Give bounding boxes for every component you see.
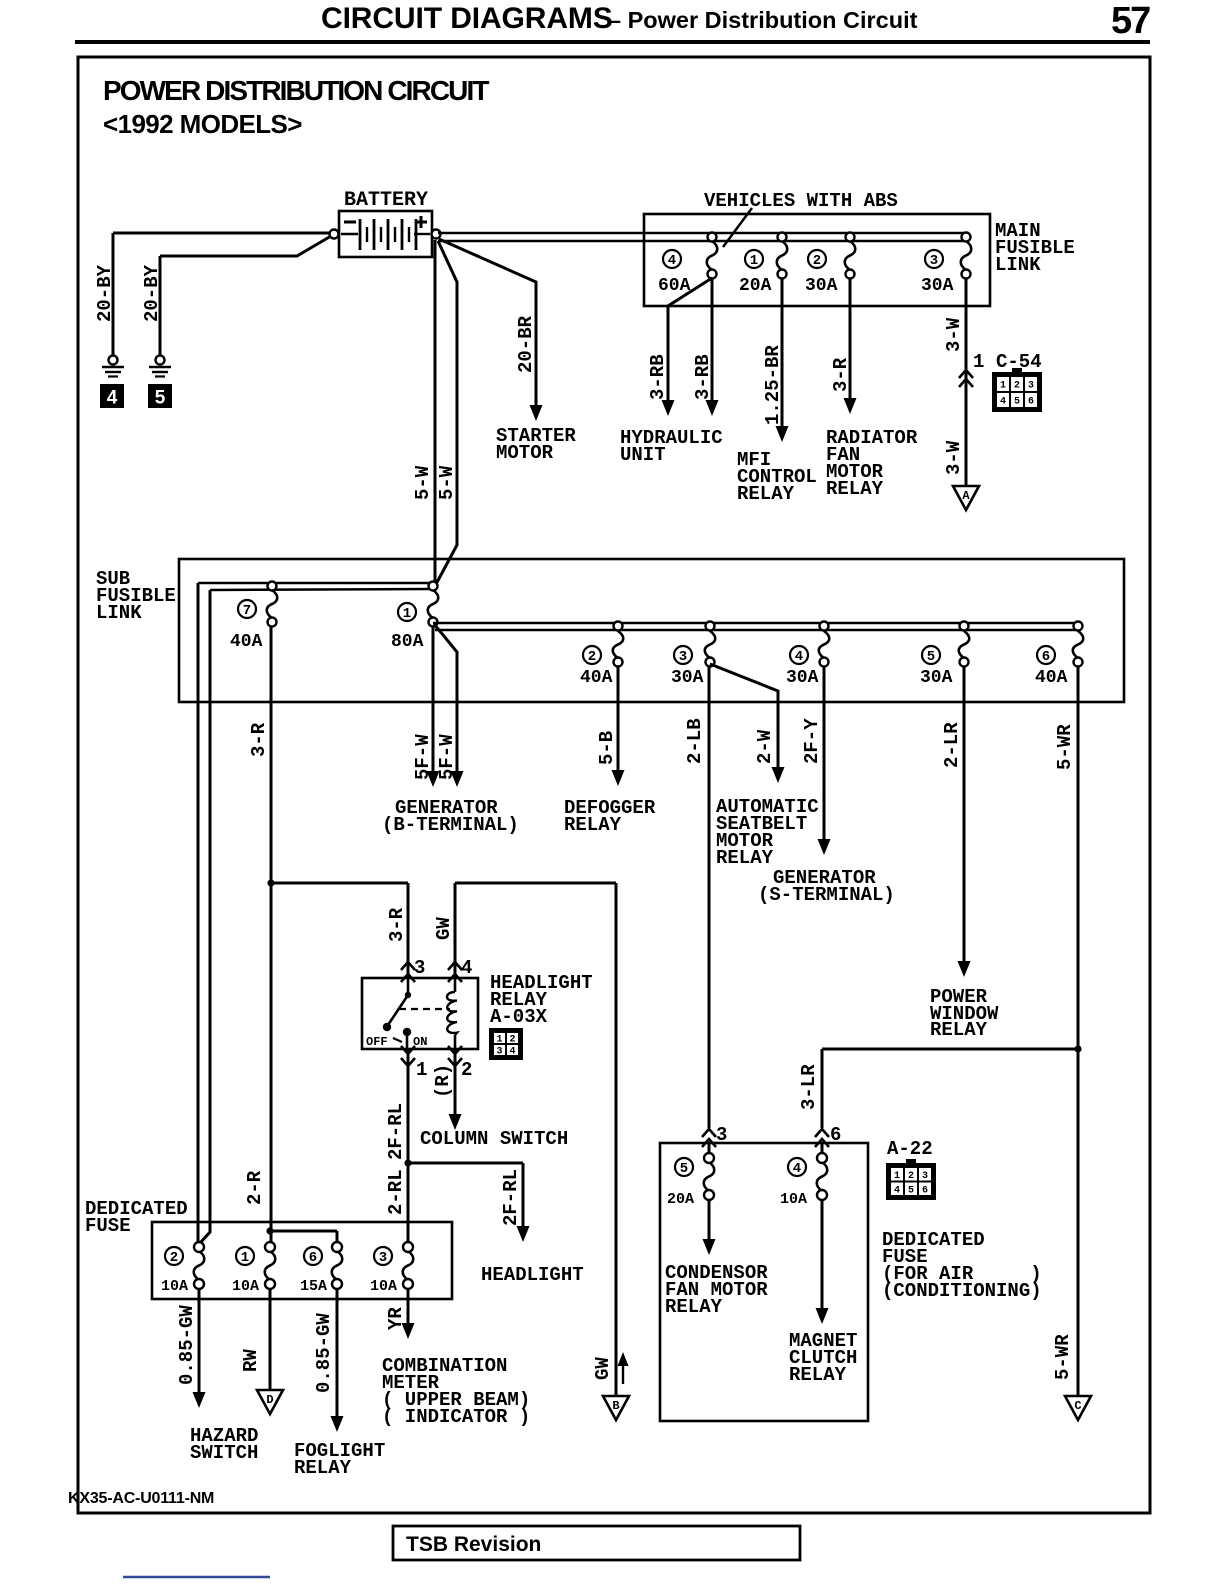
svg-text:(B-TERMINAL): (B-TERMINAL) — [382, 814, 519, 836]
main fusible link element 1 — [777, 241, 788, 270]
A/C dedicated fuse box — [660, 1143, 868, 1421]
arrow to radiator fan motor relay — [844, 398, 857, 414]
svg-text:30A: 30A — [671, 668, 704, 688]
sub link number 1 — [398, 603, 416, 622]
arrow to foglight relay — [331, 1416, 344, 1432]
svg-text:5: 5 — [908, 1185, 914, 1196]
svg-text:5: 5 — [680, 1161, 688, 1177]
svg-text:3-RB: 3-RB — [692, 354, 714, 400]
wire main bus upper — [438, 232, 966, 235]
arrow to MFI control relay — [776, 426, 789, 442]
wire down to ground 5 — [159, 256, 162, 356]
wire feed left outer (to dedicated fuse 2) — [197, 583, 200, 1243]
svg-text:4: 4 — [795, 649, 803, 665]
sub link number 2 — [583, 646, 601, 665]
svg-text:2F-RL: 2F-RL — [385, 1103, 407, 1160]
wire RW to reference D — [269, 1289, 272, 1390]
wire pin6 to fuse 4 — [821, 1143, 824, 1154]
junction at 3-R branch — [267, 879, 274, 886]
svg-text:CIRCUIT DIAGRAMS: CIRCUIT DIAGRAMS — [321, 2, 613, 35]
relay pin 2 chevrons — [448, 1046, 462, 1054]
wire 2-W branch to seatbelt relay — [710, 664, 778, 768]
svg-text:5-B: 5-B — [596, 731, 618, 765]
wire 3-R / 2-R from link 7 down to dedicated fuse 1 — [270, 626, 273, 1243]
svg-text:3-R: 3-R — [248, 722, 270, 757]
A/C dedicated fuse number 4 — [788, 1158, 806, 1177]
wire 2F-Y to generator S — [823, 666, 826, 840]
sub fusible link element 1 — [428, 590, 439, 618]
svg-text:A-03X: A-03X — [490, 1006, 548, 1028]
A/C fuse box pin 6 chevrons — [815, 1129, 829, 1137]
wire 3-R into relay pin 3 — [407, 883, 410, 978]
svg-text:2-LB: 2-LB — [684, 718, 706, 764]
A/C fuse box pin 3 chevrons — [702, 1129, 716, 1137]
svg-text:6: 6 — [309, 1250, 317, 1266]
header rule — [75, 40, 1150, 44]
wire 0.85-GW to foglight relay — [336, 1289, 339, 1417]
wire 5-WR from link 6 to reference C — [1077, 666, 1080, 1396]
off-page reference B — [603, 1396, 629, 1420]
svg-text:VEHICLES WITH ABS: VEHICLES WITH ABS — [704, 190, 898, 212]
svg-text:5-W: 5-W — [412, 465, 434, 500]
svg-text:A: A — [962, 489, 970, 503]
svg-text:6: 6 — [1042, 649, 1050, 665]
main link number 4 — [663, 250, 681, 269]
svg-text:1: 1 — [750, 253, 758, 269]
svg-text:2F-Y: 2F-Y — [801, 718, 823, 764]
svg-text:1: 1 — [973, 351, 984, 373]
svg-text:57: 57 — [1111, 0, 1150, 42]
svg-text:7: 7 — [243, 603, 251, 619]
sub link number 3 — [674, 646, 692, 665]
sub fusible link element 2 — [613, 631, 624, 658]
svg-text:5: 5 — [155, 388, 166, 409]
wire 5F-W right to generator B — [434, 624, 457, 772]
arrow to generator B-terminal right — [451, 771, 464, 787]
svg-text:4: 4 — [1000, 397, 1006, 408]
sub fusible link box — [179, 559, 1124, 702]
wire pin3 to fuse 5 — [708, 1143, 711, 1154]
svg-text:2: 2 — [170, 1250, 178, 1266]
main link number 2 — [808, 250, 826, 269]
svg-text:1: 1 — [416, 1059, 427, 1081]
sub link number 5 — [922, 646, 940, 665]
junction 5-WR / 3-LR — [1074, 1045, 1081, 1052]
wire down to dedicated fuse 6 — [336, 1231, 339, 1242]
svg-text:30A: 30A — [786, 668, 819, 688]
svg-text:6: 6 — [922, 1185, 928, 1196]
sub link number 6 — [1037, 646, 1055, 665]
ground ref 4 — [100, 384, 124, 409]
svg-text:10A: 10A — [161, 1278, 188, 1295]
svg-text:1: 1 — [496, 1035, 502, 1046]
wire down to ground 4 — [112, 233, 115, 356]
svg-text:GW: GW — [592, 1357, 614, 1380]
off-page reference D — [257, 1390, 283, 1414]
svg-text:3: 3 — [414, 957, 425, 979]
wire 5F-W left to generator B — [432, 626, 435, 772]
svg-text:3-R: 3-R — [830, 357, 852, 392]
svg-text:5-W: 5-W — [436, 465, 458, 500]
svg-text:40A: 40A — [1035, 668, 1068, 688]
svg-text:5-WR: 5-WR — [1052, 1334, 1074, 1380]
arrow to hazard switch — [193, 1392, 206, 1408]
svg-text:2F-RL: 2F-RL — [500, 1169, 522, 1226]
svg-text:3: 3 — [1028, 381, 1034, 392]
wire 3-R to radiator fan motor relay — [849, 278, 852, 398]
svg-text:30A: 30A — [805, 276, 838, 296]
svg-text:RELAY: RELAY — [930, 1019, 988, 1041]
dedicated fuse number 3 — [374, 1247, 392, 1266]
arrow to automatic seatbelt motor relay — [772, 767, 785, 783]
relay coil — [454, 978, 457, 992]
svg-text:10A: 10A — [780, 1191, 807, 1208]
svg-text:20A: 20A — [739, 276, 772, 296]
svg-text:40A: 40A — [580, 668, 613, 688]
svg-text:(S-TERMINAL): (S-TERMINAL) — [758, 884, 895, 906]
svg-text:3-R: 3-R — [386, 907, 408, 942]
dedicated fuse number 6 — [304, 1247, 322, 1266]
svg-text:5F-W: 5F-W — [412, 734, 434, 780]
wire GW horizontal — [455, 882, 616, 885]
wire branch 3-R to headlight relay — [271, 882, 408, 885]
svg-text:3-LR: 3-LR — [798, 1064, 820, 1110]
svg-text:5: 5 — [1014, 397, 1020, 408]
wire branch to headlight — [408, 1162, 523, 1165]
headlight relay A-03X box — [362, 978, 478, 1049]
direction arrow on GW wire — [622, 1360, 624, 1384]
svg-text:4: 4 — [894, 1185, 900, 1196]
svg-text:30A: 30A — [920, 668, 953, 688]
wire 2-RL to dedicated fuse 3 — [407, 1163, 410, 1243]
svg-text:30A: 30A — [921, 276, 954, 296]
svg-text:– Power Distribution Circuit: – Power Distribution Circuit — [608, 7, 918, 33]
wire battery- to ground 5 — [160, 236, 331, 256]
arrow to magnet clutch relay — [816, 1308, 829, 1324]
svg-text:20A: 20A — [667, 1191, 694, 1208]
svg-text:TSB Revision: TSB Revision — [406, 1533, 541, 1556]
arrow to generator B-terminal left — [427, 771, 440, 787]
sub fusible link element 3 — [705, 631, 716, 658]
svg-text:YR: YR — [385, 1307, 407, 1330]
arrow to starter motor — [530, 405, 543, 421]
connector A-03X pin grid — [489, 1028, 523, 1060]
svg-text:40A: 40A — [230, 632, 263, 652]
svg-text:1: 1 — [894, 1171, 900, 1182]
main fusible link element 4 — [707, 241, 718, 270]
svg-text:SWITCH: SWITCH — [190, 1442, 258, 1464]
svg-text:3: 3 — [922, 1171, 928, 1182]
svg-text:( INDICATOR ): ( INDICATOR ) — [382, 1406, 530, 1428]
svg-text:3: 3 — [930, 253, 938, 269]
svg-text:D: D — [266, 1393, 273, 1407]
arrow to combination meter — [402, 1323, 415, 1339]
svg-text:2: 2 — [461, 1059, 472, 1081]
svg-text:20-BY: 20-BY — [141, 264, 163, 322]
svg-text:2-R: 2-R — [244, 1170, 266, 1205]
battery negative terminal node — [330, 230, 339, 239]
battery B1 — [339, 211, 432, 257]
svg-text:4: 4 — [107, 388, 118, 409]
connector A-22 pin grid — [886, 1159, 936, 1200]
sub fusible link element 5 — [959, 631, 970, 658]
svg-text:RELAY: RELAY — [665, 1296, 723, 1318]
wire battery- to ground 4 — [113, 232, 330, 235]
arrowhead up on GW wire — [618, 1352, 629, 1366]
TSB Revision box — [393, 1526, 800, 1560]
svg-text:(R): (R) — [432, 1064, 454, 1098]
relay switch contact — [383, 978, 411, 1049]
svg-text:5: 5 — [927, 649, 935, 665]
ground G4 — [102, 356, 124, 377]
wire 3-LR down to A/C fuse box pin 6 — [821, 1049, 824, 1128]
battery positive terminal node — [432, 230, 441, 239]
svg-text:KX35-AC-U0111-NM: KX35-AC-U0111-NM — [68, 1490, 214, 1507]
svg-text:20-BR: 20-BR — [515, 315, 537, 373]
svg-text:3-RB: 3-RB — [647, 354, 669, 400]
main link number 1 — [745, 250, 763, 269]
svg-text:POWER DISTRIBUTION CIRCUIT: POWER DISTRIBUTION CIRCUIT — [103, 75, 489, 106]
sub link number 4 — [790, 646, 808, 665]
arrow to headlight — [517, 1226, 530, 1242]
svg-text:1: 1 — [1000, 381, 1006, 392]
sub fusible link element 6 — [1073, 631, 1084, 658]
svg-text:1.25-BR: 1.25-BR — [762, 345, 784, 425]
svg-text:1: 1 — [241, 1250, 249, 1266]
wire sub bus row1 lower — [210, 589, 430, 590]
wire 5-W right — [435, 241, 457, 586]
main fusible link element 2 — [845, 241, 856, 270]
connector pass-through chevrons C-54 — [959, 370, 973, 378]
svg-text:4: 4 — [793, 1161, 801, 1177]
svg-text:BATTERY: BATTERY — [344, 189, 428, 212]
svg-text:LINK: LINK — [995, 254, 1041, 276]
svg-text:1: 1 — [403, 606, 411, 622]
dedicated fuse element 2 — [194, 1251, 205, 1280]
sub fusible link element 7 — [267, 590, 278, 618]
svg-text:4: 4 — [668, 253, 676, 269]
svg-text:OFF: OFF — [366, 1035, 388, 1049]
svg-text:2: 2 — [509, 1035, 515, 1046]
dedicated fuse element 6 — [332, 1251, 343, 1280]
dedicated fuse number 2 — [165, 1247, 183, 1266]
svg-text:RELAY: RELAY — [294, 1457, 352, 1479]
wire sub bus row1 upper — [198, 582, 433, 585]
svg-text:FUSE: FUSE — [85, 1215, 131, 1237]
wire 3-RB (from link 4, left) — [668, 278, 712, 400]
relay pin 1 chevrons — [401, 1046, 415, 1054]
svg-text:3: 3 — [679, 649, 687, 665]
junction 2F-RL / 2-RL — [404, 1159, 411, 1166]
svg-text:2: 2 — [908, 1171, 914, 1182]
wire 5-W left — [434, 240, 437, 584]
svg-text:RELAY: RELAY — [716, 847, 774, 869]
arrow to power window relay — [958, 961, 971, 977]
svg-text:2: 2 — [1014, 381, 1020, 392]
wire branch to A/C fuse 4 — [822, 1048, 1078, 1051]
svg-text:UNIT: UNIT — [620, 444, 666, 466]
wire 2-LB from link 3 to A/C fuse 5 — [708, 666, 711, 1128]
wire YR to combination meter — [407, 1289, 410, 1324]
svg-text:RELAY: RELAY — [564, 814, 622, 836]
wire 2F-RL from relay pin 1 — [407, 1049, 410, 1163]
wire GW into relay pin 4 — [454, 883, 457, 978]
wire 5-B to defogger relay — [617, 666, 620, 771]
svg-text:5F-W: 5F-W — [436, 734, 458, 780]
svg-text:3: 3 — [496, 1047, 502, 1058]
svg-text:RW: RW — [240, 1349, 262, 1372]
svg-text:2-RL: 2-RL — [385, 1169, 407, 1215]
svg-text:GW: GW — [433, 917, 455, 940]
dedicated fuse element 1 — [265, 1251, 276, 1280]
svg-text:10A: 10A — [370, 1278, 397, 1295]
connector C-54 pin grid — [992, 368, 1042, 412]
arrow to hydraulic unit left — [662, 400, 675, 416]
relay pin 4 chevrons — [448, 962, 462, 970]
svg-text:15A: 15A — [300, 1278, 327, 1295]
arrow to hydraulic unit right — [706, 400, 719, 416]
svg-text:C: C — [1074, 1399, 1081, 1413]
relay pin 3 chevrons — [401, 962, 415, 970]
svg-text:2-LR: 2-LR — [941, 722, 963, 768]
A/C dedicated fuse number 5 — [675, 1158, 693, 1177]
svg-text:COLUMN SWITCH: COLUMN SWITCH — [420, 1128, 568, 1150]
wire 1.25-BR to MFI control relay — [781, 278, 784, 426]
wire GW down to reference B — [615, 883, 618, 1396]
wire 20-BR to starter motor — [439, 239, 536, 406]
svg-text:2-W: 2-W — [754, 729, 776, 764]
svg-text:5-WR: 5-WR — [1054, 724, 1076, 770]
off-page reference C — [1065, 1396, 1091, 1420]
svg-text:3-W: 3-W — [943, 317, 965, 352]
arrow to condensor fan motor relay — [703, 1239, 716, 1255]
leader line VEHICLES WITH ABS — [723, 208, 752, 247]
wire 3-W to connector C-54 — [965, 278, 968, 486]
relay actuation dashed link — [399, 1008, 450, 1010]
off-page reference A — [953, 486, 979, 510]
sub fusible link element 4 — [819, 631, 830, 658]
svg-text:HEADLIGHT: HEADLIGHT — [481, 1264, 584, 1286]
wire 3-RB (from link 4, right) — [711, 278, 714, 400]
wire sub bus row2 upper — [433, 622, 1078, 625]
main fusible link element 3 — [961, 241, 972, 270]
svg-text:B: B — [612, 1399, 619, 1413]
wire main bus lower — [438, 240, 966, 243]
arrow to column switch — [449, 1114, 462, 1130]
svg-text:6: 6 — [1028, 397, 1034, 408]
svg-text:RELAY: RELAY — [789, 1364, 847, 1386]
wire feed left inner (to dedicated fuse 2) — [201, 590, 210, 1242]
blue underline mark — [123, 1576, 270, 1579]
wire 2F-RL to headlight — [522, 1163, 525, 1226]
arrow to defogger relay — [612, 770, 625, 786]
svg-text:(CONDITIONING): (CONDITIONING) — [882, 1280, 1042, 1302]
sub link number 7 — [238, 600, 256, 619]
ground ref 5 — [148, 384, 172, 409]
dedicated fuse number 1 — [236, 1247, 254, 1266]
wire to magnet clutch relay — [821, 1200, 824, 1309]
svg-text:<1992 MODELS>: <1992 MODELS> — [103, 109, 302, 139]
wire to condensor fan motor relay — [708, 1200, 711, 1240]
svg-text:RELAY: RELAY — [737, 483, 795, 505]
ground G5 — [149, 356, 171, 377]
A/C dedicated fuse element 4 — [817, 1162, 828, 1191]
A/C dedicated fuse element 5 — [704, 1162, 715, 1191]
arrow to generator S-terminal — [818, 839, 831, 855]
svg-text:80A: 80A — [391, 632, 424, 652]
svg-text:2: 2 — [813, 253, 821, 269]
svg-text:0.85-GW: 0.85-GW — [313, 1313, 335, 1393]
svg-text:A-22: A-22 — [887, 1138, 933, 1160]
svg-text:4: 4 — [509, 1047, 515, 1058]
dedicated fuse box — [152, 1222, 452, 1299]
svg-text:3: 3 — [379, 1250, 387, 1266]
svg-text:20-BY: 20-BY — [94, 264, 116, 322]
main link number 3 — [925, 250, 943, 269]
svg-text:10A: 10A — [232, 1278, 259, 1295]
main fusible link box — [644, 214, 990, 306]
junction dedicated fuse feed — [266, 1227, 273, 1234]
dedicated fuse element 3 — [403, 1251, 414, 1280]
wire 0.85-GW to hazard switch — [198, 1289, 201, 1393]
svg-text:LINK: LINK — [96, 602, 142, 624]
wire feed to dedicated fuse 6 — [270, 1230, 337, 1233]
svg-text:4: 4 — [461, 957, 472, 979]
svg-text:MOTOR: MOTOR — [496, 442, 554, 464]
wire sub bus row2 lower — [435, 629, 1078, 632]
wire 2-LR to power window relay — [963, 666, 966, 962]
svg-text:2: 2 — [588, 649, 596, 665]
wire (R) to column switch — [454, 1049, 457, 1114]
svg-text:RELAY: RELAY — [826, 478, 884, 500]
svg-text:3-W: 3-W — [943, 440, 965, 475]
svg-text:0.85-GW: 0.85-GW — [176, 1305, 198, 1385]
